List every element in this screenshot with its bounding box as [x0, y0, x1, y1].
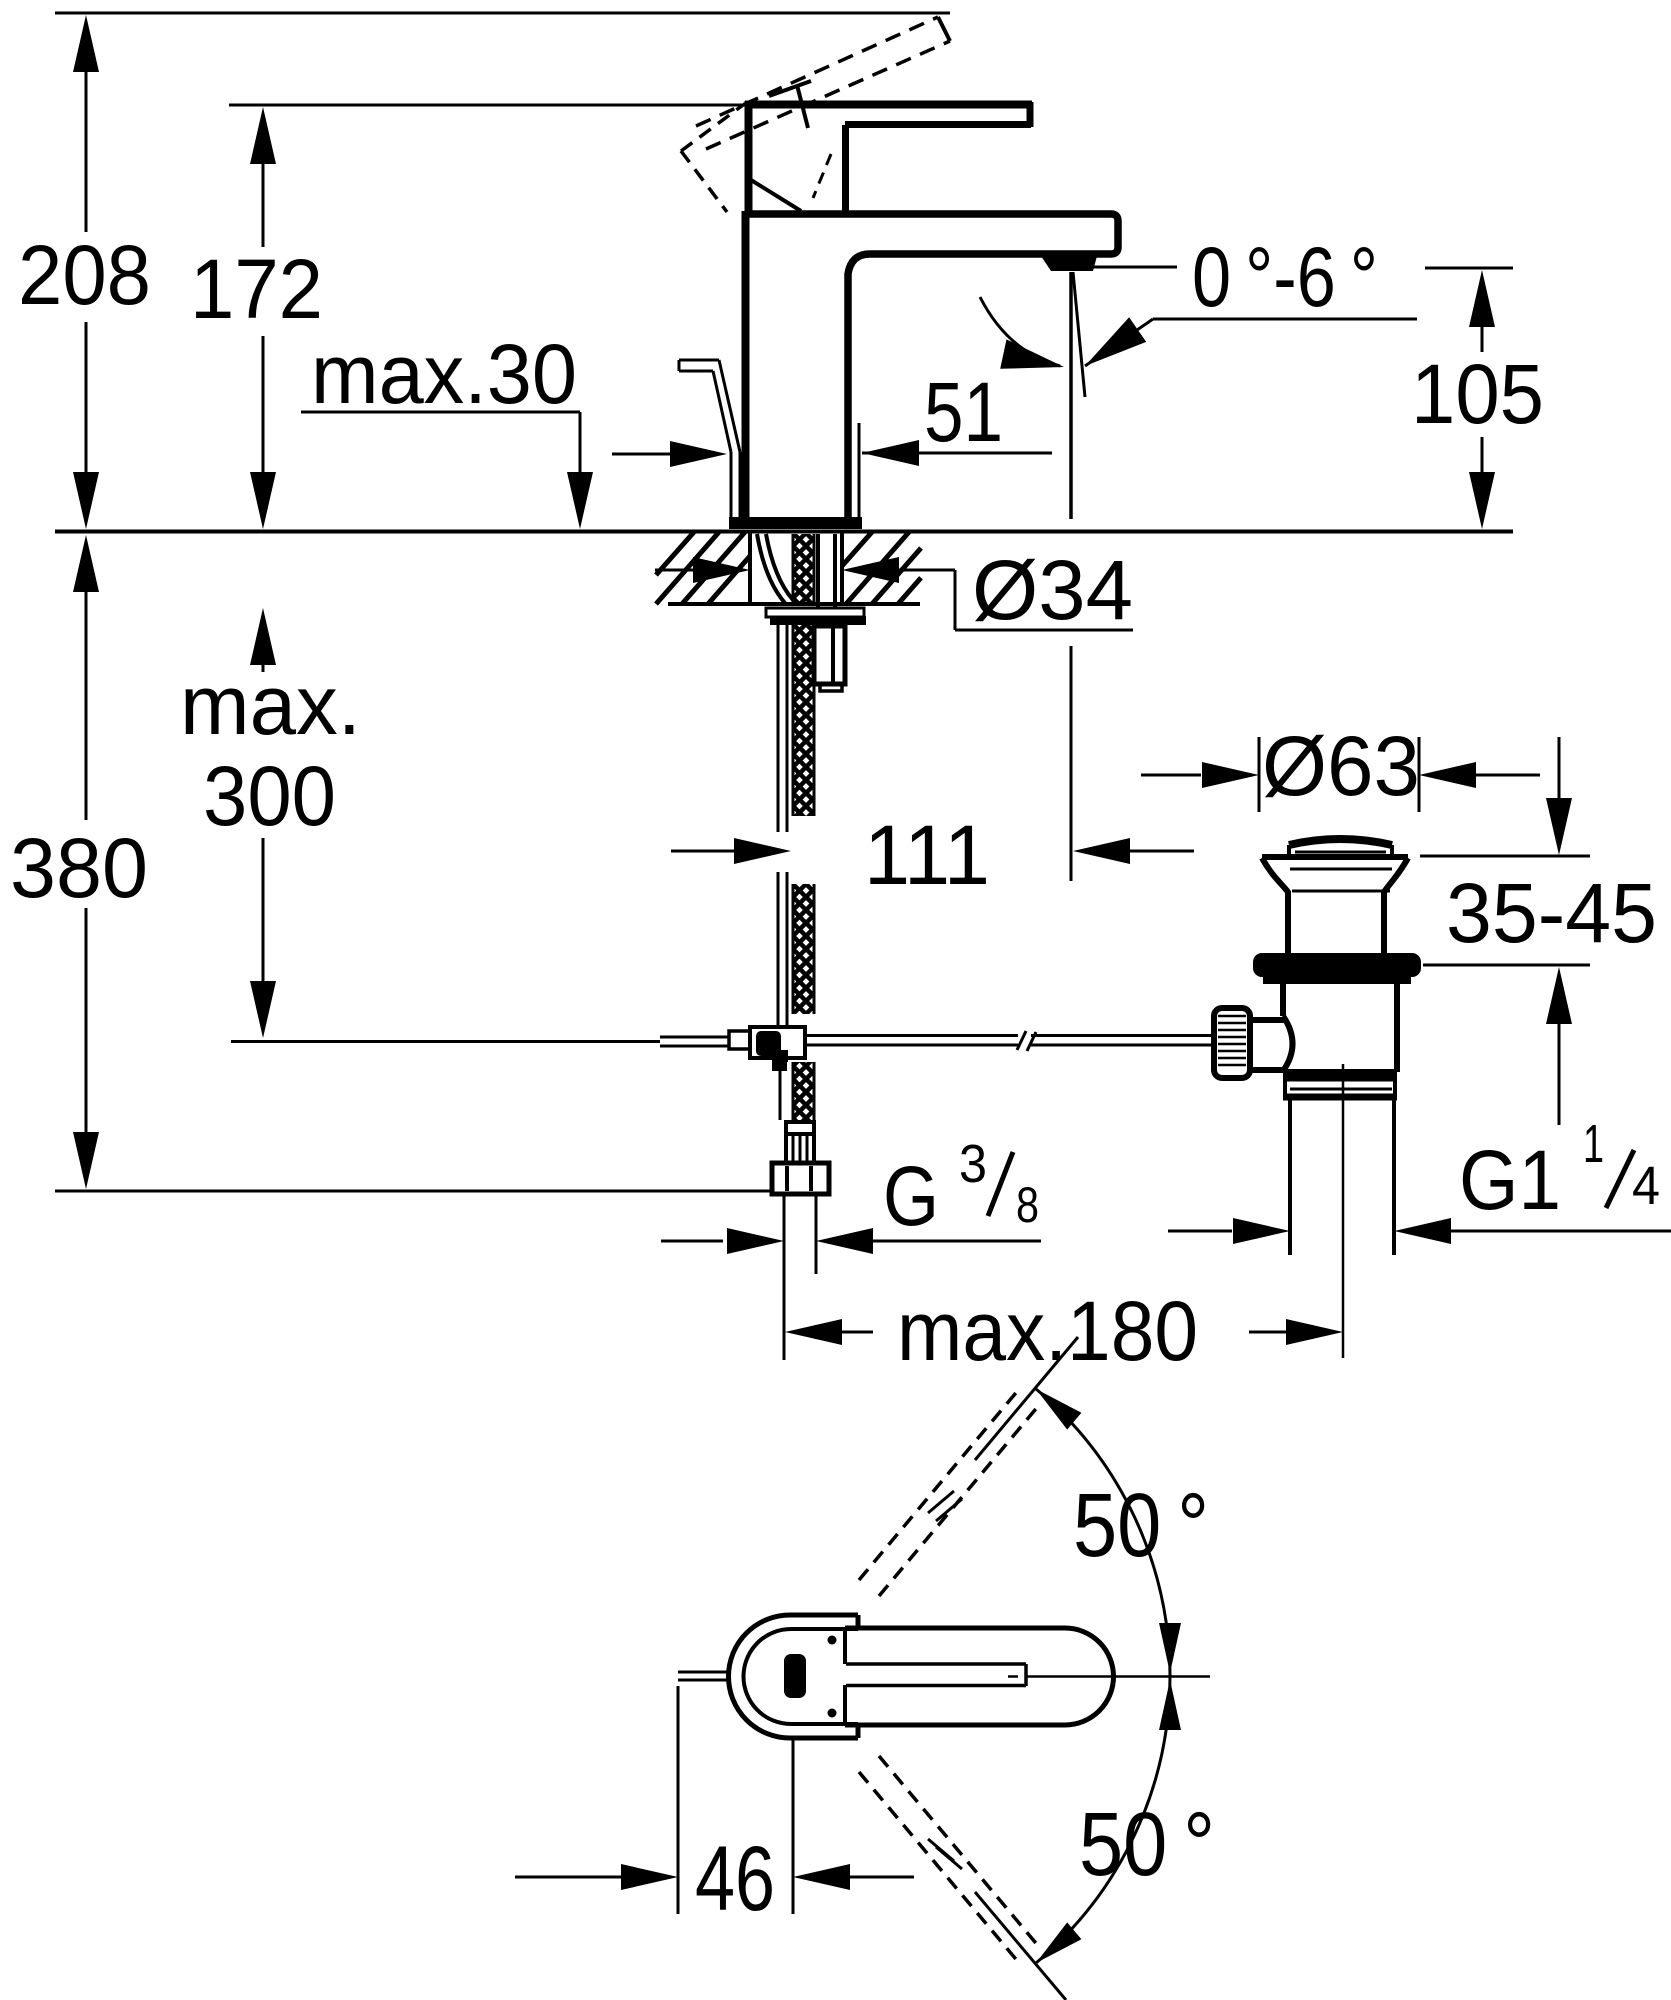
dimension G3/8	[783, 1196, 786, 1360]
faucet base flange	[729, 517, 862, 529]
dimension max.300	[250, 608, 276, 665]
mounting hole edges	[748, 532, 752, 604]
svg-text:35-45: 35-45	[1446, 866, 1657, 960]
handle pivot internal lines	[769, 81, 811, 96]
hose connection nut G3/8	[772, 1163, 829, 1194]
svg-text:1: 1	[1583, 1114, 1604, 1174]
dimension 208	[73, 15, 99, 72]
drain valve body	[1280, 981, 1286, 1016]
dimension 46	[677, 1686, 680, 1914]
pop-up rod coupling	[729, 1031, 750, 1049]
svg-text:300: 300	[203, 749, 336, 843]
pop-up lever rod	[679, 359, 719, 362]
svg-text:50 °: 50 °	[1079, 1795, 1215, 1895]
top view screw dots	[828, 1636, 837, 1645]
dimension 105	[1425, 267, 1513, 270]
svg-text:G: G	[883, 1149, 939, 1243]
faucet handle lever	[745, 101, 1032, 109]
pop-up rod horizontal	[660, 1036, 729, 1039]
flexible hose (upper section)	[777, 621, 780, 832]
deck hatching	[656, 532, 719, 604]
svg-text:172: 172	[190, 242, 323, 336]
dimension 208 top reference line	[55, 12, 950, 15]
faucet body outline	[745, 214, 1118, 517]
shank supply tubes	[757, 534, 785, 603]
mounting nut fitting	[814, 626, 845, 684]
handle rotated down 50 deg (dashed)	[859, 1772, 1020, 1964]
drain flange	[1262, 854, 1408, 860]
faucet handle block	[745, 101, 753, 213]
svg-text:max.180: max.180	[897, 1284, 1198, 1378]
drain centerline	[1342, 1064, 1345, 1358]
top view handle capsule	[845, 1628, 1114, 1725]
svg-text:4: 4	[1632, 1156, 1660, 1216]
handle rotated up 50 deg (dashed)	[859, 1388, 1020, 1580]
flexible hose (middle section)	[777, 872, 780, 1026]
aerator (spout outlet)	[1041, 256, 1097, 271]
svg-text:0 °-6 °: 0 °-6 °	[1192, 230, 1378, 324]
svg-text:111: 111	[864, 808, 990, 902]
0-6 degree leader and label	[1093, 266, 1177, 269]
water stream lines	[1069, 272, 1073, 519]
dimension 51	[858, 423, 861, 529]
dimension diameter 34	[655, 569, 694, 572]
dimension 172 reference line	[229, 104, 745, 107]
svg-text:380: 380	[10, 821, 148, 915]
top view base escutcheon	[728, 1615, 858, 1738]
drain rubber gasket	[1253, 953, 1421, 977]
mounting stud	[816, 534, 820, 608]
mounting washer	[766, 608, 864, 617]
svg-text:Ø34: Ø34	[972, 543, 1133, 637]
dimension 111	[671, 850, 736, 853]
top view pop-up rod tip	[678, 1671, 728, 1674]
50 degree arc lower	[1036, 1676, 1170, 1963]
drain knurled knob	[1214, 1008, 1250, 1078]
svg-text:208: 208	[18, 228, 151, 322]
svg-text:8: 8	[1016, 1177, 1039, 1233]
dimension max.180	[785, 1319, 842, 1345]
top view cartridge hole	[784, 1654, 806, 1698]
top view handle slot	[846, 1662, 1026, 1666]
svg-text:Ø63: Ø63	[1262, 719, 1420, 813]
dimension 35-45	[1558, 737, 1561, 799]
braided hose in shank	[793, 534, 814, 604]
svg-text:50 °: 50 °	[1073, 1476, 1209, 1576]
svg-text:max.30: max.30	[311, 327, 577, 421]
svg-text:G1: G1	[1459, 1133, 1561, 1227]
drain pop-up cap	[1289, 839, 1392, 845]
50 degree arc upper	[1036, 1389, 1170, 1676]
drain slip nut	[1283, 1075, 1397, 1082]
svg-text:max.: max.	[180, 658, 361, 752]
top view center line	[1008, 1675, 1018, 1678]
svg-text:105: 105	[1411, 347, 1544, 441]
dimension G1 1/4	[1168, 1230, 1232, 1233]
drain tailpipe	[1288, 1100, 1292, 1255]
dimension 172	[250, 107, 276, 164]
svg-text:46: 46	[695, 1828, 775, 1930]
flexible hose (lower end)	[777, 1050, 788, 1062]
rotated handle (dashed position)	[696, 17, 938, 126]
countertop deck section	[55, 530, 1513, 534]
dimension diameter 63	[1258, 737, 1261, 812]
svg-text:51: 51	[924, 365, 1003, 459]
dimension 380	[73, 535, 99, 592]
svg-text:3: 3	[959, 1134, 987, 1194]
